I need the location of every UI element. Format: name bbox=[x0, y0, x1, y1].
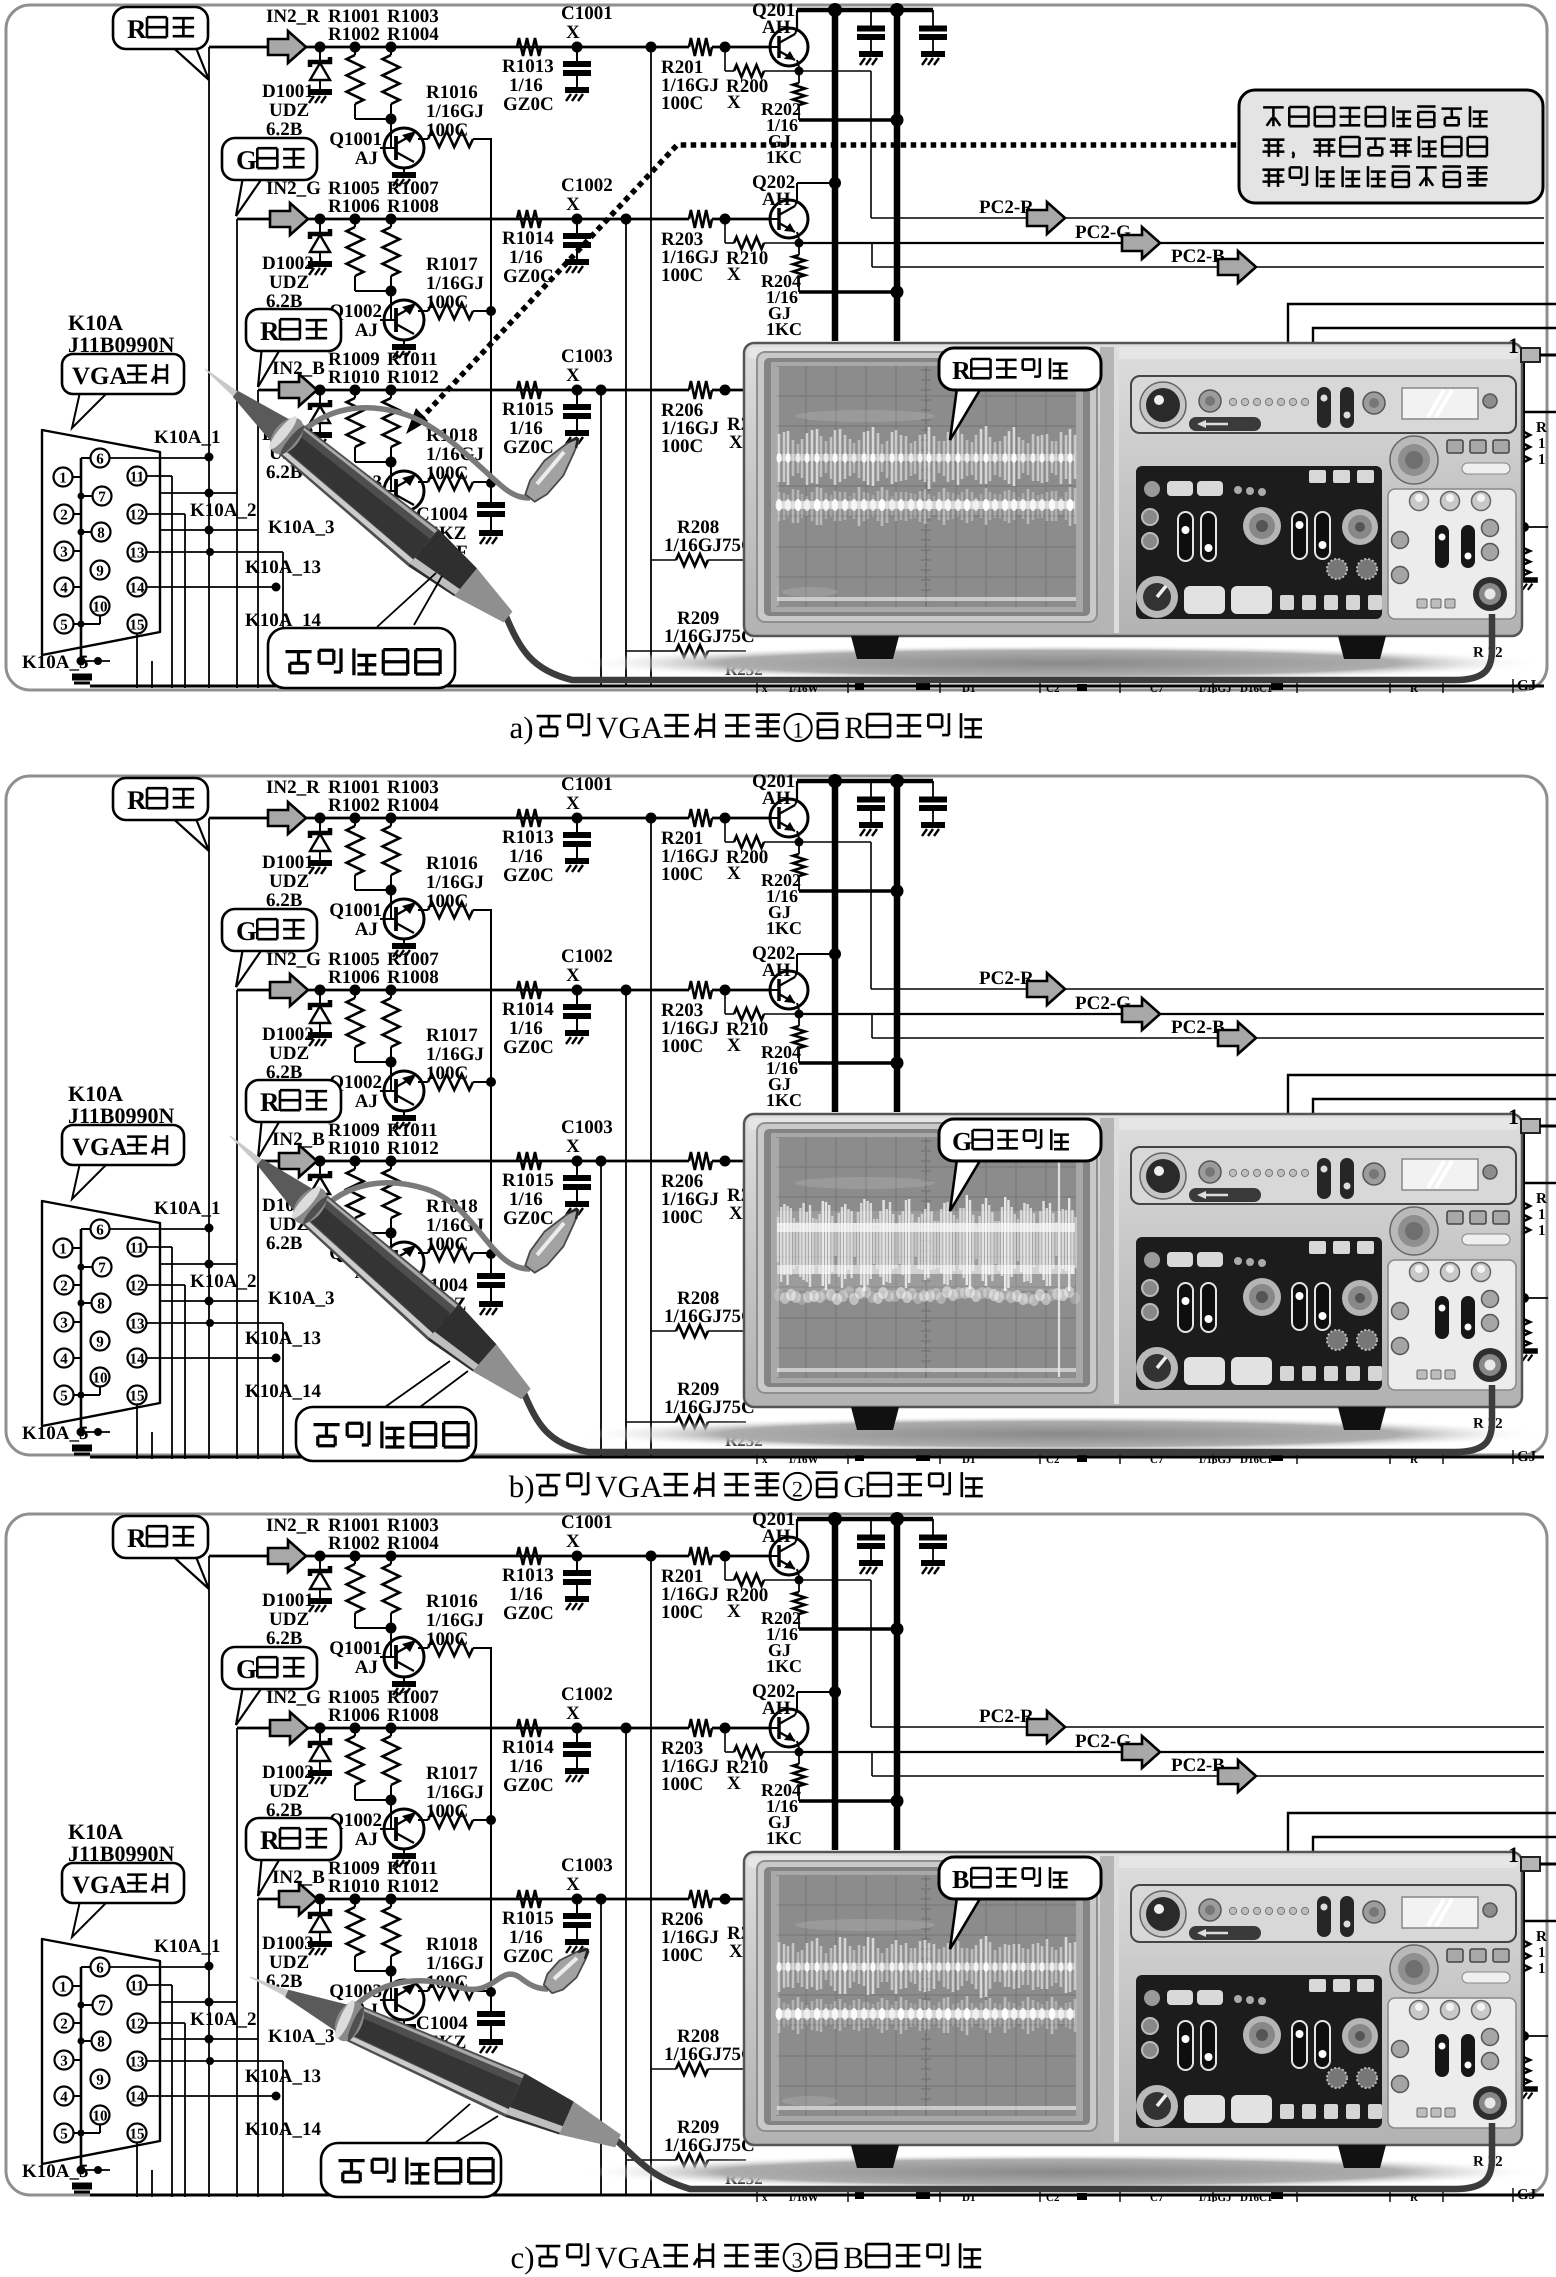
svg-text:1/16: 1/16 bbox=[509, 846, 543, 867]
wire tab stub bbox=[1540, 1863, 1556, 1866]
node bus2 PC2-R bbox=[891, 114, 904, 127]
pin 12 K10A bbox=[128, 505, 147, 524]
pin 14 K10A bbox=[128, 578, 147, 597]
svg-text:7: 7 bbox=[98, 1999, 106, 2015]
svg-text:1/16: 1/16 bbox=[509, 1018, 543, 1039]
ground C1004 bbox=[479, 1301, 503, 1307]
resistor R222 vertical bbox=[1518, 2052, 1530, 2084]
svg-text:100C: 100C bbox=[426, 120, 468, 141]
svg-text:AH: AH bbox=[762, 1698, 791, 1719]
svg-text:14: 14 bbox=[130, 1352, 146, 1368]
svg-text:UDZ: UDZ bbox=[269, 100, 309, 121]
waveform trace B bbox=[778, 1942, 781, 1992]
svg-text:K10A_1: K10A_1 bbox=[154, 427, 221, 448]
wire Q201 emitter tap bbox=[803, 841, 871, 843]
svg-text:1: 1 bbox=[1508, 333, 1519, 358]
slider switch B bbox=[1340, 1158, 1354, 1199]
oscilloscope top control strip bbox=[1131, 1147, 1516, 1204]
wire top supply bbox=[797, 8, 933, 13]
svg-text:C1001: C1001 bbox=[561, 3, 613, 24]
vent pill bbox=[1462, 1234, 1510, 1245]
svg-text:15: 15 bbox=[130, 618, 145, 634]
ground bypass 1 bbox=[859, 822, 883, 828]
wire pin11 riser bbox=[147, 475, 172, 477]
wire feedback B bbox=[1313, 1837, 1556, 1852]
svg-text:1/16: 1/16 bbox=[509, 418, 543, 439]
ground Q1002 emitter bbox=[392, 1853, 416, 1859]
wire PC2-G bbox=[803, 1013, 1544, 1015]
svg-text:GZ0C: GZ0C bbox=[503, 1946, 554, 1967]
ground bypass 1 bbox=[859, 51, 883, 57]
svg-text:X: X bbox=[566, 965, 580, 986]
resistor R1018 horizontal bbox=[418, 1252, 428, 1254]
wire R202 to bus2 bbox=[799, 1627, 897, 1631]
svg-text:R1002: R1002 bbox=[328, 795, 380, 816]
ground bypass 2 bbox=[921, 1560, 945, 1566]
pin 13 K10A bbox=[128, 2052, 147, 2071]
resistor R211 vertical bbox=[1518, 1197, 1530, 1233]
wire dropper G row bbox=[625, 1728, 627, 2195]
wire bottom bus bbox=[90, 2194, 1544, 2197]
svg-text:1KC: 1KC bbox=[766, 147, 802, 167]
wire IN2_B row bbox=[258, 1898, 689, 1901]
node IN2_R input corner bbox=[208, 817, 210, 819]
svg-text:b): b) bbox=[509, 1469, 535, 1504]
svg-text:10: 10 bbox=[93, 2109, 108, 2125]
wire pin14 line bbox=[147, 2095, 276, 2097]
ground right chain bbox=[1516, 2086, 1538, 2091]
diode D1002 zener bbox=[315, 1723, 326, 1734]
svg-text:R1013: R1013 bbox=[502, 56, 554, 77]
wire pin15 down bbox=[136, 1405, 138, 1459]
node Q202 emitter bbox=[797, 1003, 799, 1010]
svg-text:D16C1: D16C1 bbox=[1240, 1454, 1272, 1466]
knob small B bbox=[1363, 392, 1385, 414]
pin 14 K10A bbox=[128, 1349, 147, 1368]
callout bubble IN2_R signal bbox=[168, 814, 209, 851]
svg-text:1KC: 1KC bbox=[766, 1656, 802, 1676]
wire pin6 to K10A_1 bbox=[110, 1228, 209, 1230]
speaker pill bbox=[1189, 1188, 1261, 1202]
resistor R1011/R1012 vertical bbox=[386, 385, 397, 396]
svg-text:X: X bbox=[729, 1203, 743, 1224]
resistor R202 vertical bbox=[798, 71, 800, 83]
callout warning box bbox=[1239, 90, 1543, 203]
svg-text:GZ0C: GZ0C bbox=[503, 865, 554, 886]
wire dropper R row bbox=[650, 818, 652, 1457]
led row bbox=[1229, 398, 1236, 405]
pin 9 K10A bbox=[91, 561, 110, 580]
pin 7 K10A bbox=[93, 487, 112, 506]
svg-text:15: 15 bbox=[130, 2127, 145, 2143]
button trio bbox=[1447, 1949, 1463, 1962]
bus line 1 bbox=[832, 779, 839, 1112]
wire Q201 collector riser bbox=[795, 1538, 797, 1543]
wire riser x258 bbox=[257, 1161, 259, 1459]
pin 10 K10A bbox=[91, 2106, 110, 2125]
node R201 output bbox=[720, 42, 731, 53]
wire pin5 stub bbox=[74, 2132, 81, 2134]
pin 15 K10A bbox=[128, 2124, 147, 2143]
wire R1009 to Q1003 base bbox=[355, 1232, 391, 1234]
svg-text:VGA: VGA bbox=[72, 1872, 128, 1899]
svg-text:R1004: R1004 bbox=[387, 24, 439, 45]
resistor R208 bbox=[676, 1325, 708, 1337]
svg-text:3: 3 bbox=[60, 2054, 68, 2070]
wire top supply bbox=[797, 1517, 933, 1522]
pin 4 K10A bbox=[55, 2087, 74, 2106]
wire K10A_5 tie bbox=[81, 2169, 110, 2171]
wire R204 to bus2 bbox=[799, 1061, 897, 1065]
svg-text:R: R bbox=[127, 1523, 147, 1553]
pin 3 K10A bbox=[55, 542, 74, 561]
wire R202 to bus2 bbox=[799, 889, 897, 893]
transistor Q1001 bbox=[384, 1637, 424, 1677]
wire pin13 line bbox=[147, 551, 283, 553]
node R203 output bbox=[720, 985, 731, 996]
vent pill bbox=[1462, 1972, 1510, 1983]
wire bottom bus bbox=[90, 685, 1544, 688]
svg-text:1KC: 1KC bbox=[766, 1090, 802, 1110]
resistor R204 vertical bbox=[798, 1752, 800, 1764]
svg-text:1/16: 1/16 bbox=[509, 75, 543, 96]
svg-text:R1010: R1010 bbox=[328, 1876, 380, 1897]
arrow PC2-G bbox=[1122, 1736, 1160, 1768]
svg-text:R1016: R1016 bbox=[426, 82, 478, 103]
svg-text:R1006: R1006 bbox=[328, 196, 380, 217]
callout bubble IN2_G signal bbox=[236, 177, 263, 216]
speaker pill bbox=[1189, 1926, 1261, 1940]
svg-text:C1001: C1001 bbox=[561, 1512, 613, 1533]
diode D1003 zener bbox=[315, 385, 326, 396]
oscilloscope body bbox=[575, 1416, 1545, 1452]
speaker pill bbox=[1189, 417, 1261, 431]
wire dropper R row bbox=[650, 47, 652, 686]
wire pin4 stub bbox=[74, 1357, 81, 1359]
ground C1004 bbox=[479, 530, 503, 536]
right white panel bbox=[1388, 1260, 1516, 1390]
bus line 1 bbox=[832, 8, 839, 341]
svg-text:X: X bbox=[727, 92, 741, 113]
transistor Q1003 bbox=[384, 471, 424, 511]
ground K10A_5 bbox=[77, 657, 86, 666]
wire PC2-R bbox=[870, 1580, 872, 1727]
wire K10A ground bus bbox=[80, 1229, 83, 1432]
svg-text:R1014: R1014 bbox=[502, 228, 554, 249]
svg-text:R: R bbox=[127, 14, 147, 44]
resistor R1011/R1012 vertical bbox=[386, 1894, 397, 1905]
svg-text:X: X bbox=[727, 1773, 741, 1794]
svg-text:7: 7 bbox=[98, 490, 106, 506]
transistor Q202 bbox=[777, 979, 781, 1001]
wire right chain bbox=[1523, 362, 1525, 580]
svg-text:G: G bbox=[843, 1469, 865, 1504]
svg-text:7: 7 bbox=[98, 1261, 106, 1277]
node IN2_G input corner bbox=[236, 1727, 238, 1729]
wire PC2-B bbox=[871, 1752, 873, 1776]
node IN2_G input corner bbox=[236, 989, 238, 991]
wire bottom bus bbox=[90, 1456, 1544, 1459]
node R201 output bbox=[720, 1551, 731, 1562]
node Q201 emitter bbox=[797, 60, 799, 67]
svg-text:R: R bbox=[260, 1825, 280, 1855]
svg-text:R: R bbox=[260, 316, 280, 346]
svg-text:1/16: 1/16 bbox=[509, 1756, 543, 1777]
svg-text:2: 2 bbox=[60, 2017, 68, 2033]
resistor R1007/R1008 vertical bbox=[386, 985, 397, 996]
node right chain bbox=[1519, 1293, 1529, 1303]
capacitor C1001 bbox=[572, 42, 583, 53]
svg-text:GZ0C: GZ0C bbox=[503, 94, 554, 115]
node R206 output bbox=[720, 1156, 731, 1167]
mid knob large bbox=[1390, 1945, 1438, 1993]
wire dropper R row bbox=[650, 1556, 652, 2195]
arrow IN2_G bbox=[270, 203, 308, 235]
wire K10A_3 line bbox=[160, 1300, 258, 1302]
wire pin7 stub bbox=[81, 2004, 92, 2006]
svg-text:VGA: VGA bbox=[72, 1134, 128, 1161]
bus line 1 bbox=[832, 1517, 839, 1850]
svg-text:X: X bbox=[566, 1136, 580, 1157]
resistor R201 horizontal bbox=[689, 809, 712, 827]
oscilloscope probe bbox=[230, 1136, 531, 1400]
svg-text:1: 1 bbox=[59, 471, 67, 487]
bottom bus components bbox=[756, 679, 758, 693]
wire riser x283 bbox=[282, 2061, 284, 2197]
pin 8 K10A bbox=[92, 1294, 111, 1313]
svg-text:R1006: R1006 bbox=[328, 967, 380, 988]
svg-text:R1012: R1012 bbox=[387, 1876, 439, 1897]
svg-text:1KC: 1KC bbox=[766, 1828, 802, 1848]
oscilloscope foot right bbox=[1338, 2145, 1386, 2168]
svg-text:C1002: C1002 bbox=[561, 175, 613, 196]
svg-text:1: 1 bbox=[1538, 436, 1546, 452]
waveform trace R bbox=[778, 434, 781, 482]
waveform trace G bbox=[777, 1211, 1075, 1291]
svg-text:UDZ: UDZ bbox=[269, 1781, 309, 1802]
arrow IN2_G bbox=[270, 1712, 308, 1744]
svg-text:AJ: AJ bbox=[355, 1091, 378, 1112]
resistor R222 vertical bbox=[1518, 543, 1530, 575]
slider switch A bbox=[1317, 387, 1331, 428]
svg-text:D1002: D1002 bbox=[262, 253, 314, 274]
svg-text:GZ0C: GZ0C bbox=[503, 437, 554, 458]
svg-text:4: 4 bbox=[60, 2090, 68, 2106]
svg-text:D16C1: D16C1 bbox=[1240, 2192, 1272, 2204]
indicator lamp bbox=[1483, 394, 1497, 408]
arrow PC2-G bbox=[1122, 227, 1160, 259]
knob small B bbox=[1363, 1901, 1385, 1923]
svg-text:1: 1 bbox=[1508, 1104, 1519, 1129]
wire pin6 stub bbox=[81, 1228, 90, 1230]
pin 10 K10A bbox=[91, 597, 110, 616]
svg-text:AH: AH bbox=[762, 17, 791, 38]
wire pin10 elbow bbox=[99, 1387, 101, 1395]
arrow IN2_R bbox=[268, 802, 306, 834]
pin 9 K10A bbox=[91, 2070, 110, 2089]
pin 1 K10A bbox=[54, 1977, 73, 1996]
svg-text:100C: 100C bbox=[426, 1234, 468, 1255]
knob small A bbox=[1199, 1161, 1221, 1183]
wire R1001 to Q1001 base bbox=[355, 118, 391, 120]
svg-text:X: X bbox=[566, 194, 580, 215]
resistor R211 vertical bbox=[1518, 1935, 1530, 1971]
wire K10A_5 tie bbox=[81, 1431, 110, 1433]
wire IN2_R row bbox=[209, 1555, 689, 1558]
capacitor bypass 1 bbox=[870, 10, 872, 26]
svg-text:9: 9 bbox=[96, 2073, 104, 2089]
resistor R1003/R1004 vertical bbox=[386, 813, 397, 824]
wire pin13 line bbox=[147, 1322, 283, 1324]
resistor R1003/R1004 vertical bbox=[386, 1551, 397, 1562]
ground Q1001 emitter bbox=[392, 1681, 416, 1687]
wire Q outputs join bbox=[490, 1648, 492, 1999]
probe cable bbox=[615, 2123, 1492, 2189]
svg-text:1/16GJ: 1/16GJ bbox=[1198, 683, 1232, 695]
svg-text:R: R bbox=[1536, 1191, 1547, 1207]
diode D1001 zener bbox=[315, 42, 326, 53]
svg-text:K10A_1: K10A_1 bbox=[154, 1936, 221, 1957]
arrow IN2_B bbox=[279, 374, 317, 406]
callout bubble oscilloscope probe bbox=[425, 2104, 470, 2143]
svg-text:X: X bbox=[566, 793, 580, 814]
wire tab stub bbox=[1540, 1125, 1556, 1128]
ground K10A_5 bbox=[77, 2166, 86, 2175]
wire pin3 stub bbox=[74, 550, 81, 552]
svg-text:100C: 100C bbox=[661, 93, 703, 114]
svg-text:G: G bbox=[236, 916, 257, 946]
node tab 1 bbox=[1521, 1119, 1540, 1133]
wire pin7 stub bbox=[81, 495, 92, 497]
wire vert x152 bbox=[151, 2170, 153, 2197]
wire R209 tap bbox=[626, 650, 676, 652]
svg-text:R: R bbox=[127, 785, 147, 815]
svg-text:1KC: 1KC bbox=[766, 918, 802, 938]
arrowhead dotted line bbox=[406, 408, 428, 434]
transistor Q1002 bbox=[384, 300, 424, 340]
pin 2 K10A bbox=[55, 2014, 74, 2033]
node bus2 PC2-G bbox=[891, 1795, 904, 1808]
wire IN2_G row bbox=[237, 218, 689, 221]
svg-text:x: x bbox=[762, 683, 768, 695]
wire R1009 to Q1003 base bbox=[355, 461, 391, 463]
wire riser x209 bbox=[208, 47, 210, 688]
pin 12 K10A bbox=[128, 1276, 147, 1295]
node tab 1 bbox=[1521, 348, 1540, 362]
svg-text:UDZ: UDZ bbox=[269, 1952, 309, 1973]
wire R202 to bus2 bbox=[799, 118, 897, 122]
resistor R202 vertical bbox=[798, 842, 800, 854]
resistor R1017 horizontal bbox=[418, 1081, 428, 1083]
ground right chain bbox=[1516, 577, 1538, 582]
bus line 2 bbox=[894, 1517, 901, 1850]
pin 5 K10A bbox=[55, 2124, 74, 2143]
wire Q201 collector riser bbox=[795, 800, 797, 805]
resistor R206 horizontal bbox=[689, 1152, 712, 1170]
callout bubble IN2_B signal bbox=[258, 1855, 282, 1896]
node IN2_R input corner bbox=[208, 1555, 210, 1557]
svg-text:K10A_5: K10A_5 bbox=[22, 2161, 89, 2182]
svg-text:D1001: D1001 bbox=[262, 81, 314, 102]
svg-text:R1012: R1012 bbox=[387, 367, 439, 388]
callout bubble IN2_R signal bbox=[168, 43, 209, 80]
svg-text:IN2_R: IN2_R bbox=[266, 1515, 320, 1536]
svg-text:C1002: C1002 bbox=[561, 1684, 613, 1705]
svg-text:R1013: R1013 bbox=[502, 827, 554, 848]
svg-text:C2: C2 bbox=[1046, 1454, 1060, 1466]
resistor R1009/R1010 vertical bbox=[350, 1156, 361, 1167]
svg-text:2: 2 bbox=[60, 1279, 68, 1295]
pin 13 K10A bbox=[128, 543, 147, 562]
wire pin6 to K10A_1 bbox=[110, 1966, 209, 1968]
pin 10 K10A bbox=[91, 1368, 110, 1387]
pin 14 K10A bbox=[128, 2087, 147, 2106]
svg-text:R1010: R1010 bbox=[328, 1138, 380, 1159]
oscilloscope screen bezel bbox=[757, 352, 1097, 622]
callout bubble VGA port bbox=[72, 392, 108, 428]
wire R1005 to Q1002 base bbox=[355, 1061, 391, 1063]
svg-text:6.2B: 6.2B bbox=[266, 1233, 303, 1254]
svg-text:1: 1 bbox=[1508, 1842, 1519, 1867]
wire Q202 collector to bus1 bbox=[795, 1710, 797, 1715]
alligator clip bbox=[544, 1948, 589, 1993]
svg-text:1/16W: 1/16W bbox=[788, 1454, 819, 1466]
ground Q1001 emitter bbox=[392, 943, 416, 949]
wire pin5 stub bbox=[74, 1394, 81, 1396]
dark panel controls bbox=[1309, 1979, 1326, 1992]
resistor R1013 horizontal series bbox=[517, 1547, 541, 1565]
pin 4 K10A bbox=[55, 1349, 74, 1368]
led row bbox=[1229, 1907, 1236, 1914]
node R206 output bbox=[720, 385, 731, 396]
node bus2 PC2-R bbox=[891, 885, 904, 898]
svg-text:100C: 100C bbox=[661, 1036, 703, 1057]
node IN2_B input corner bbox=[257, 1160, 259, 1162]
white panel controls bbox=[1410, 492, 1429, 511]
wire pin13 line bbox=[147, 2060, 283, 2062]
capacitor bypass 2 bbox=[932, 1519, 934, 1535]
node K10A_1 bbox=[205, 1224, 214, 1233]
wire dropper G row bbox=[625, 219, 627, 686]
arrow IN2_G bbox=[270, 974, 308, 1006]
capacitor C1001 bbox=[572, 1551, 583, 1562]
wire R209 tap bbox=[626, 2159, 676, 2161]
capacitor C1004 bbox=[490, 483, 492, 503]
pin 5 K10A bbox=[55, 615, 74, 634]
resistor R1009/R1010 vertical bbox=[350, 1894, 361, 1905]
resistor R1017 horizontal bbox=[418, 310, 428, 312]
svg-text:AH: AH bbox=[762, 960, 791, 981]
wire pin1 stub bbox=[73, 476, 81, 478]
svg-text:14: 14 bbox=[130, 2090, 146, 2106]
resistor R210 horizontal bbox=[724, 219, 726, 243]
pin 1 K10A bbox=[54, 468, 73, 487]
ground bypass 2 bbox=[921, 822, 945, 828]
oscilloscope foot left bbox=[851, 1407, 899, 1430]
diode D1003 zener bbox=[315, 1156, 326, 1167]
resistor R1014 horizontal series bbox=[517, 210, 541, 228]
svg-text:R1010: R1010 bbox=[328, 367, 380, 388]
diode D1002 zener bbox=[315, 214, 326, 225]
node K10A_1 bbox=[205, 1962, 214, 1971]
node IN2_B input corner bbox=[257, 1898, 259, 1900]
diode D1003 zener bbox=[315, 1894, 326, 1905]
pin 11 K10A bbox=[128, 1238, 147, 1257]
resistor R206 horizontal bbox=[689, 1890, 712, 1908]
svg-text:100C: 100C bbox=[426, 463, 468, 484]
wire K10A_2 line bbox=[160, 1263, 237, 1265]
svg-text:6: 6 bbox=[96, 1961, 104, 1977]
